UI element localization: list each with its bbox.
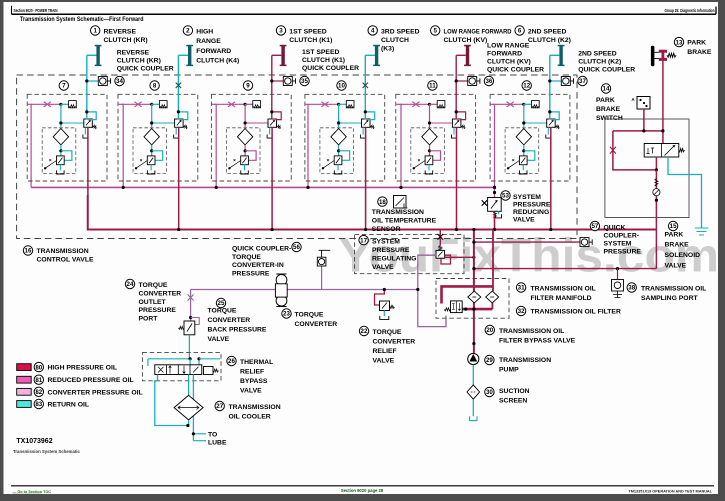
suction screen 30: [472, 365, 474, 385]
transmission oil temperature sensor 18: [394, 196, 407, 209]
clutch symbol section 11: [466, 46, 469, 66]
label 22: [359, 326, 368, 335]
svg-text:TRANSMISSION OIL: TRANSMISSION OIL: [531, 286, 596, 293]
clutch symbol section 12: [559, 46, 562, 66]
svg-text:3RD SPEED: 3RD SPEED: [381, 29, 420, 36]
svg-text:OIL TEMPERATURE: OIL TEMPERATURE: [372, 217, 437, 224]
svg-text:36: 36: [485, 78, 492, 85]
clutch symbol section 8: [188, 46, 191, 66]
svg-text:FORWARD: FORWARD: [487, 51, 522, 58]
svg-text:30: 30: [486, 389, 493, 396]
svg-text:REDUCED PRESSURE OIL: REDUCED PRESSURE OIL: [48, 377, 134, 384]
svg-text:1ST SPEED: 1ST SPEED: [302, 49, 339, 56]
svg-text:CONVERTER: CONVERTER: [208, 317, 251, 324]
label 2 high range forward clutch: [183, 26, 192, 35]
svg-text:CLUTCH (KR): CLUTCH (KR): [104, 37, 148, 44]
clutch supply line section 7: [86, 55, 88, 119]
svg-text:CLUTCH (K1): CLUTCH (K1): [302, 57, 345, 64]
svg-text:TRANSMISSION: TRANSMISSION: [499, 357, 551, 364]
svg-text:FORWARD: FORWARD: [196, 48, 231, 55]
quick coupler 56 converter-in: [321, 266, 323, 290]
svg-text:3: 3: [279, 28, 283, 35]
label 1 reverse clutch: [91, 26, 100, 35]
svg-text:26: 26: [228, 358, 235, 365]
clutch symbol section 9: [281, 46, 284, 66]
svg-text:TO: TO: [208, 432, 217, 439]
label 57: [590, 221, 599, 230]
svg-text:QUICK COUPLER: QUICK COUPLER: [487, 67, 544, 74]
spool valve: [155, 365, 202, 375]
clutch valve section 12: [490, 94, 570, 231]
svg-text:SUCTION: SUCTION: [499, 388, 530, 395]
clutch valve section 7: [27, 94, 107, 229]
svg-text:2ND SPEED: 2ND SPEED: [528, 29, 567, 36]
svg-text:14: 14: [603, 86, 610, 93]
valve 25 body: [184, 321, 195, 335]
transmission oil sampling port 38: [617, 269, 619, 280]
reduced pressure riser to section 8: [121, 104, 123, 187]
high pressure bus (line B): [88, 195, 657, 230]
svg-text:TRANSMISSION OIL: TRANSMISSION OIL: [499, 328, 564, 335]
svg-text:8: 8: [153, 83, 157, 90]
svg-text:CLUTCH (KR): CLUTCH (KR): [117, 58, 161, 65]
svg-text:A: A: [632, 97, 635, 102]
svg-text:TRANSMISSION: TRANSMISSION: [37, 248, 89, 255]
svg-text:VALVE: VALVE: [665, 263, 687, 270]
return line from valve 15 to tank: [668, 157, 702, 228]
svg-text:PORT: PORT: [139, 316, 159, 323]
reduced pressure riser to section 11: [399, 104, 401, 187]
svg-text:7: 7: [62, 83, 66, 90]
svg-text:13: 13: [676, 39, 683, 46]
svg-text:CLUTCH: CLUTCH: [381, 37, 409, 44]
reduced pressure riser to section 10: [307, 104, 309, 187]
svg-text:BACK PRESSURE: BACK PRESSURE: [208, 327, 267, 334]
clutch symbol section 10: [375, 46, 378, 66]
quick coupler 37: [550, 80, 562, 82]
label 5 low range forward clutch: [431, 26, 440, 35]
svg-text:TRANSMISSION OIL FILTER: TRANSMISSION OIL FILTER: [531, 309, 621, 316]
svg-text:RELIEF: RELIEF: [373, 348, 397, 355]
svg-text:CLUTCH (KV): CLUTCH (KV): [444, 37, 488, 44]
valve 17 output loop: [441, 255, 451, 264]
svg-text:PRESSURE: PRESSURE: [513, 202, 551, 209]
svg-text:53: 53: [502, 193, 509, 200]
label 27: [215, 401, 224, 410]
valve 17 body: [436, 250, 445, 258]
reduced pressure riser to section 7: [30, 104, 32, 187]
svg-text:PARK: PARK: [665, 232, 684, 239]
svg-text:CLUTCH (K2): CLUTCH (K2): [578, 59, 621, 66]
label 23: [282, 309, 291, 318]
label 30: [485, 387, 494, 396]
transmission oil filters 32: [468, 291, 481, 303]
transmission control valve box 16: [17, 75, 577, 239]
filter bypass valve 20: [451, 301, 463, 313]
svg-text:11: 11: [429, 83, 436, 90]
label 56: [292, 242, 301, 251]
converter feed from valve 17: [418, 255, 446, 326]
svg-text:35: 35: [301, 78, 308, 85]
svg-text:TM13351X19 OPERATION AND TEST: TM13351X19 OPERATION AND TEST MANUAL: [628, 490, 712, 494]
svg-text:SYSTEM: SYSTEM: [604, 241, 632, 248]
page edge shading: [0, 0, 4, 501]
system pressure reducing valve 53: [494, 187, 496, 197]
svg-text:QUICK COUPLER: QUICK COUPLER: [117, 66, 174, 73]
svg-text:82: 82: [35, 389, 42, 396]
svg-text:QUICK: QUICK: [604, 225, 626, 232]
svg-text:QUICK COUPLER: QUICK COUPLER: [578, 67, 635, 74]
label 29: [485, 355, 494, 364]
svg-text:16: 16: [25, 248, 32, 255]
svg-text:(K3): (K3): [381, 45, 394, 52]
svg-text:RETURN OIL: RETURN OIL: [48, 402, 90, 409]
test port X section 10: [363, 83, 368, 88]
svg-text:CONTROL VAVLE: CONTROL VAVLE: [37, 256, 94, 263]
clutch supply line section 11: [455, 55, 457, 119]
svg-text:LOW RANGE FORWARD: LOW RANGE FORWARD: [444, 29, 512, 36]
svg-text:SYSTEM: SYSTEM: [372, 239, 400, 246]
sampling line: [474, 268, 657, 270]
label 31: [516, 283, 525, 292]
page header rule: [12, 13, 717, 15]
svg-text:OUTLET: OUTLET: [139, 299, 167, 306]
label 24: [125, 279, 134, 288]
svg-text:CONVERTER: CONVERTER: [295, 321, 338, 328]
park brake solenoid valve 15: [644, 144, 679, 158]
label circle 10: [337, 81, 346, 90]
label 32: [516, 306, 525, 315]
svg-text:TORQUE: TORQUE: [139, 282, 168, 289]
svg-text:PRESSURE: PRESSURE: [232, 270, 270, 277]
svg-text:BRAKE: BRAKE: [687, 49, 712, 56]
svg-text:12: 12: [523, 83, 530, 90]
svg-text:BYPASS: BYPASS: [240, 378, 268, 385]
svg-text:1ST SPEED: 1ST SPEED: [289, 29, 326, 36]
label 4 3rd speed clutch: [368, 26, 377, 35]
svg-text:RANGE: RANGE: [196, 38, 221, 45]
test port X section 8: [176, 83, 181, 88]
svg-text:34: 34: [116, 78, 123, 85]
svg-text:SENSOR: SENSOR: [372, 226, 401, 233]
reduced pressure bus (line A): [31, 186, 494, 188]
label circle 9: [243, 81, 252, 90]
svg-text:9: 9: [246, 83, 250, 90]
svg-text:24: 24: [127, 281, 134, 288]
svg-text:TRANSMISSION OIL: TRANSMISSION OIL: [641, 286, 706, 293]
svg-text:PUMP: PUMP: [499, 367, 519, 374]
park brake solenoid valve enclosure: [605, 119, 689, 218]
clutch valve section 11: [396, 94, 476, 231]
svg-text:VALVE: VALVE: [372, 264, 394, 271]
svg-text:TORQUE: TORQUE: [295, 312, 324, 319]
svg-text:RELIEF: RELIEF: [240, 369, 264, 376]
legend 83 return oil: [17, 401, 32, 408]
svg-text:LOW RANGE: LOW RANGE: [487, 43, 530, 50]
svg-text:CONVERTER-IN: CONVERTER-IN: [232, 262, 284, 269]
svg-text:Transmission System Schematic—: Transmission System Schematic—First Forw…: [20, 16, 144, 23]
label circle 11: [428, 81, 437, 90]
svg-text:PRESSURE: PRESSURE: [372, 247, 410, 254]
svg-text:32: 32: [518, 308, 525, 315]
to lube: [193, 434, 206, 441]
svg-text:COUPLER-: COUPLER-: [604, 233, 640, 240]
svg-text:15: 15: [670, 223, 677, 230]
svg-text:81: 81: [35, 377, 42, 384]
valve 17 pilot line: [439, 230, 441, 246]
svg-text:2: 2: [186, 28, 190, 35]
svg-text:10: 10: [338, 83, 345, 90]
torque converter outlet port / back pressure valve 25: [190, 290, 192, 322]
svg-text:VALVE: VALVE: [208, 336, 230, 343]
label box 17: [355, 235, 464, 274]
clutch supply line section 10: [364, 55, 366, 119]
park brake switch 14: [637, 97, 650, 110]
svg-text:31: 31: [518, 285, 525, 292]
reduced pressure riser to section 9: [214, 104, 216, 187]
svg-text:SOLENOID: SOLENOID: [665, 252, 701, 259]
quick coupler 34: [87, 80, 99, 82]
svg-text:REVERSE: REVERSE: [104, 29, 137, 36]
clutch valve section 8: [118, 94, 198, 231]
clutch supply line section 12: [549, 55, 551, 119]
label 18: [378, 197, 387, 206]
transmission oil filter manifold 31: [436, 279, 509, 319]
label 13 park brake: [674, 37, 683, 46]
svg-text:23: 23: [283, 311, 290, 318]
svg-text:80: 80: [35, 364, 42, 371]
svg-text:REDUCING: REDUCING: [513, 209, 549, 216]
label 16: [23, 246, 32, 255]
suction tank: [470, 416, 477, 420]
svg-text:SWITCH: SWITCH: [596, 115, 623, 122]
svg-text:83: 83: [35, 401, 42, 408]
svg-text:37: 37: [579, 78, 586, 85]
svg-text:PARK: PARK: [596, 97, 615, 104]
quick coupler 57 symbol: [580, 238, 589, 247]
label 15 park brake solenoid valve: [668, 221, 677, 230]
svg-text:5: 5: [433, 28, 437, 35]
svg-text:PRESSURE: PRESSURE: [604, 249, 642, 256]
svg-text:REGULATING: REGULATING: [372, 256, 416, 263]
svg-text:TORQUE: TORQUE: [373, 329, 402, 336]
label 26: [227, 356, 236, 365]
label circle 12: [522, 81, 531, 90]
svg-text:Section 9020 - POWER TRAIN: Section 9020 - POWER TRAIN: [14, 8, 58, 13]
svg-text:TORQUE: TORQUE: [208, 308, 237, 315]
svg-text:PARK: PARK: [687, 40, 706, 47]
clutch valve section 10: [305, 94, 385, 231]
svg-text:1: 1: [93, 28, 97, 35]
svg-text:— Go to Section TOC: — Go to Section TOC: [13, 490, 52, 494]
clutch supply line section 9: [271, 55, 273, 119]
svg-text:VALVE: VALVE: [373, 358, 395, 365]
reduced pressure riser to section 12: [493, 104, 494, 187]
svg-text:FILTER BYPASS VALVE: FILTER BYPASS VALVE: [499, 338, 576, 345]
label 6 2nd speed clutch: [515, 26, 524, 35]
svg-text:22: 22: [361, 328, 368, 335]
svg-text:TORQUE: TORQUE: [232, 254, 261, 261]
svg-text:56: 56: [293, 244, 300, 251]
svg-text:TRANSMISSION: TRANSMISSION: [372, 209, 424, 216]
thermal relief bypass valve 26: [142, 352, 221, 380]
svg-text:SYSTEM: SYSTEM: [513, 194, 541, 201]
svg-text:27: 27: [216, 403, 223, 410]
svg-text:THERMAL: THERMAL: [240, 359, 273, 366]
valve 22 body: [380, 301, 390, 311]
line to quick coupler 57: [474, 241, 580, 243]
svg-text:CLUTCH (K2): CLUTCH (K2): [528, 37, 571, 44]
svg-text:FILTER MANIFOLD: FILTER MANIFOLD: [531, 295, 592, 302]
transmission pump 29: [472, 342, 475, 345]
svg-text:CLUTCH (K1): CLUTCH (K1): [289, 37, 332, 44]
svg-text:VALVE: VALVE: [240, 388, 262, 395]
svg-text:CONVERTER PRESSURE OIL: CONVERTER PRESSURE OIL: [48, 389, 143, 396]
svg-text:38: 38: [628, 285, 635, 292]
svg-text:OIL COOLER: OIL COOLER: [229, 414, 271, 421]
svg-text:25: 25: [218, 300, 225, 307]
tank symbol: [695, 228, 708, 235]
svg-text:Section 9020 page 28: Section 9020 page 28: [341, 488, 384, 493]
svg-text:SAMPLING PORT: SAMPLING PORT: [641, 295, 698, 302]
svg-text:HIGH: HIGH: [196, 29, 213, 36]
label circle 7: [59, 81, 68, 90]
svg-text:PRESSURE: PRESSURE: [139, 307, 177, 314]
svg-text:CONVERTER: CONVERTER: [373, 339, 416, 346]
svg-text:CLUTCH (KV): CLUTCH (KV): [487, 59, 531, 66]
svg-text:TRANSMISSION: TRANSMISSION: [229, 404, 281, 411]
svg-text:57: 57: [591, 223, 598, 230]
svg-text:TX1073962: TX1073962: [16, 438, 52, 445]
svg-text:20: 20: [486, 327, 493, 334]
footer rule: [11, 485, 714, 487]
svg-text:2ND SPEED: 2ND SPEED: [578, 51, 617, 58]
svg-text:CLUTCH (K4): CLUTCH (K4): [196, 58, 239, 65]
svg-text:BRAKE: BRAKE: [665, 242, 690, 249]
svg-text:BRAKE: BRAKE: [596, 106, 621, 113]
label 53: [501, 191, 510, 200]
legend 81 reduced pressure oil: [17, 376, 32, 383]
svg-text:6: 6: [518, 28, 522, 35]
svg-text:CONVERTER: CONVERTER: [139, 290, 182, 297]
svg-text:17: 17: [360, 237, 367, 244]
svg-text:LUBE: LUBE: [208, 440, 227, 447]
quick coupler 36: [456, 80, 468, 82]
quick coupler 35: [272, 80, 284, 82]
cooler loop: [155, 375, 188, 426]
transmission oil cooler 27: [174, 395, 203, 420]
svg-text:QUICK COUPLER: QUICK COUPLER: [302, 65, 359, 72]
check orifice below valve 15: [655, 170, 657, 269]
svg-text:REVERSE: REVERSE: [117, 50, 150, 57]
label 38: [627, 283, 636, 292]
label 20: [485, 325, 494, 334]
park brake supply wires: [662, 60, 664, 144]
label 25: [216, 298, 225, 307]
svg-text:29: 29: [486, 357, 493, 364]
clutch symbol section 7: [96, 46, 99, 66]
svg-text:HIGH PRESSURE OIL: HIGH PRESSURE OIL: [48, 365, 118, 372]
converter pressure line: [191, 289, 418, 291]
label 14 park brake switch: [601, 84, 610, 93]
svg-text:VALVE: VALVE: [513, 217, 535, 224]
svg-text:QUICK COUPLER-: QUICK COUPLER-: [232, 246, 291, 253]
torque converter 23: [276, 275, 287, 286]
svg-text:SCREEN: SCREEN: [499, 398, 527, 405]
torque converter relief valve 22: [375, 290, 385, 306]
clutch valve section 9: [211, 94, 291, 231]
legend 82 converter pressure oil: [17, 388, 32, 395]
svg-text:Group 25: Diagnostic Informati: Group 25: Diagnostic Information: [665, 8, 715, 13]
main pump pressure riser: [473, 230, 475, 354]
svg-text:18: 18: [379, 199, 386, 206]
filter loop: [442, 286, 494, 303]
svg-text:4: 4: [371, 28, 375, 35]
clutch supply line section 8: [177, 55, 179, 119]
svg-text:Transmission System Schematic: Transmission System Schematic: [13, 449, 80, 454]
label 3 1st speed clutch: [276, 26, 285, 35]
park brake clutch 13: [651, 46, 655, 66]
label circle 8: [150, 81, 159, 90]
legend 80 high pressure oil: [17, 364, 32, 371]
